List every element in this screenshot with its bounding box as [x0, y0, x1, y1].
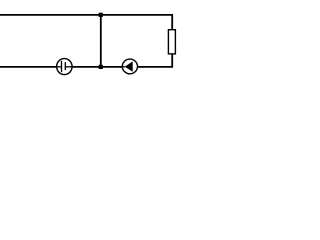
- wire resistor bottom to bottom rail corner: [138, 54, 173, 67]
- wire middle branch: [100, 15, 102, 67]
- current source I1: [122, 59, 137, 74]
- node dot top: [99, 13, 103, 17]
- wire between sources: [72, 66, 122, 68]
- resistor R1: [168, 30, 175, 54]
- wire bottom rail left: [0, 66, 57, 68]
- wire top rail with corner down to resistor: [0, 15, 172, 30]
- node dot bottom: [99, 65, 103, 69]
- voltage source V1: [57, 59, 73, 75]
